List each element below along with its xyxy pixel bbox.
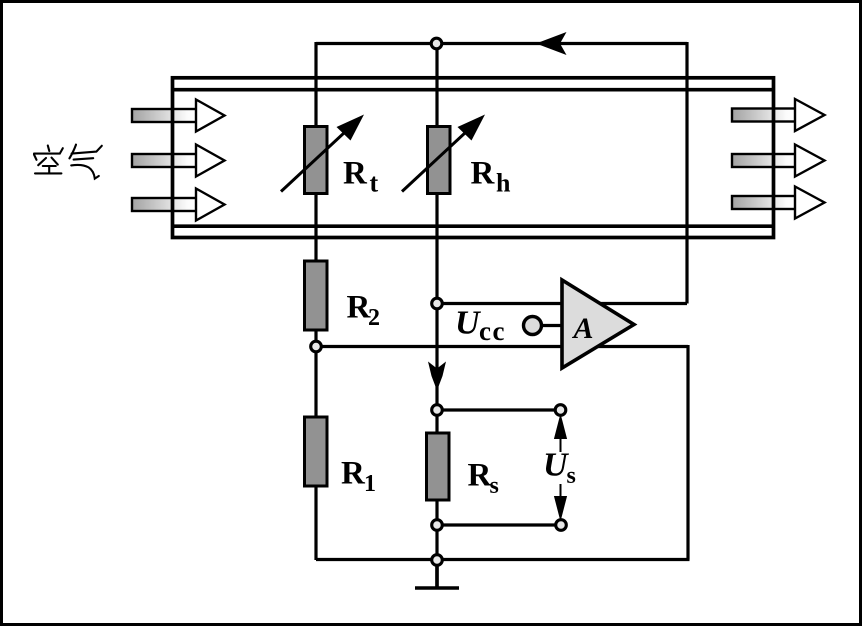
svg-text:s: s [567, 463, 576, 489]
air outflow arrow 3 [732, 187, 825, 219]
op-amp U1 triangle [562, 280, 634, 368]
air outflow arrow 1 [732, 99, 825, 131]
svg-text:s: s [490, 473, 499, 499]
Rh variable arrow [402, 115, 485, 192]
resistor Rt [305, 127, 328, 194]
svg-text:h: h [496, 169, 511, 198]
arrowhead on feedback wire (pointing left) [536, 32, 567, 55]
node top (junction of Rt/Rh feedback) [431, 38, 442, 49]
svg-text:1: 1 [364, 471, 376, 497]
svg-text:R: R [471, 156, 496, 192]
air inflow arrow 1 [132, 100, 225, 132]
svg-text:U: U [455, 305, 482, 342]
resistor Rh [428, 127, 451, 194]
air inflow arrow 3 [132, 189, 225, 221]
node amplifier input [432, 298, 443, 309]
wire: Rs bottom terminal to Us terminal [437, 523, 561, 526]
wire: amplifier input upper y=303.5 [437, 302, 687, 305]
node ground junction [432, 555, 443, 566]
wire: center vertical x=437 [435, 44, 438, 589]
node Rs bottom [432, 520, 443, 531]
air outflow arrow 2 [732, 145, 825, 177]
resistor R2 [305, 261, 328, 330]
wire: left bridge vertical x=316 [314, 42, 317, 560]
Us measurement arrows [555, 418, 566, 518]
wire: bottom horizontal [316, 558, 690, 561]
terminal Us bottom [556, 520, 567, 531]
Rt variable arrow [281, 115, 364, 192]
current direction arrow (down) on center wire [428, 362, 446, 391]
wire: feedback vertical right [685, 42, 688, 304]
node bridge left (R2/R1 junction) [311, 341, 322, 352]
svg-text:cc: cc [479, 316, 506, 346]
Ucc supply terminal circle [524, 317, 542, 335]
node Rs top [432, 405, 443, 416]
wire: top feedback horizontal [316, 42, 687, 45]
resistor R1 [305, 417, 328, 486]
wire: bridge node to lower right y=346.5 [316, 345, 688, 348]
terminal Us top [555, 405, 566, 416]
svg-text:A: A [572, 312, 594, 345]
wire: Ucc circle to op-amp [542, 324, 562, 327]
duct (wind tunnel walls) [173, 78, 774, 238]
svg-text:R: R [341, 456, 366, 492]
resistor Rs [427, 433, 450, 500]
ground [415, 565, 459, 588]
wire: Rs top terminal to Us terminal [437, 408, 561, 411]
svg-text:t: t [370, 169, 379, 198]
air inflow arrow 2 [132, 145, 225, 177]
svg-text:2: 2 [368, 305, 380, 331]
label 空气 (air), hand-drawn strokes [34, 145, 102, 179]
svg-text:R: R [343, 156, 368, 192]
wire: lower right vertical x=688 [686, 345, 689, 560]
